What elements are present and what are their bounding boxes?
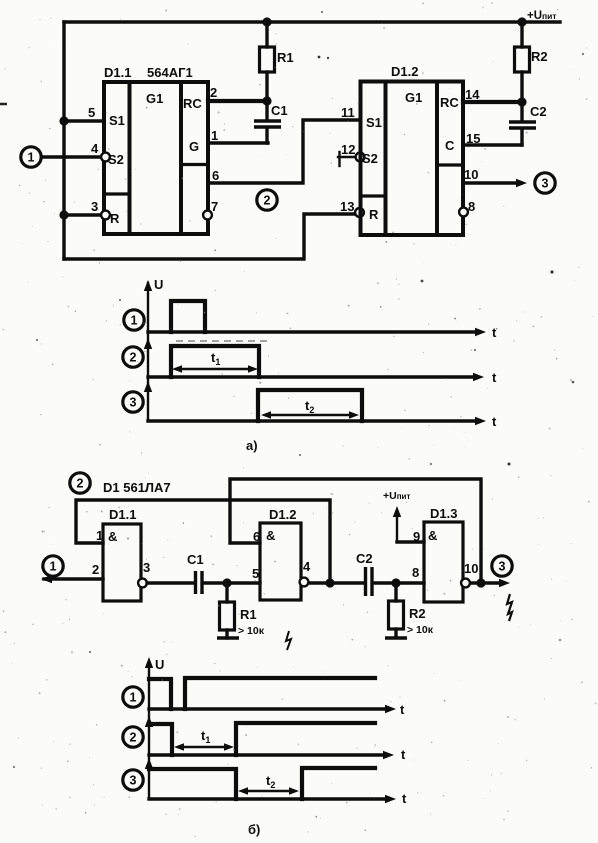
svg-text:а): а) — [246, 438, 258, 453]
svg-text:RC: RC — [440, 95, 459, 110]
svg-text:8: 8 — [412, 565, 419, 580]
svg-text:C1: C1 — [271, 103, 288, 118]
svg-text:C: C — [445, 138, 455, 153]
svg-text:1: 1 — [28, 150, 35, 164]
svg-text:S1: S1 — [109, 113, 125, 128]
svg-text:R: R — [110, 211, 120, 226]
svg-text:S2: S2 — [362, 151, 378, 166]
svg-text:5: 5 — [88, 105, 95, 120]
svg-text:&: & — [428, 528, 437, 543]
svg-text:U: U — [154, 277, 163, 292]
svg-text:3: 3 — [542, 176, 549, 190]
svg-text:C2: C2 — [356, 551, 373, 566]
svg-text:R1: R1 — [240, 607, 257, 622]
svg-text:1: 1 — [96, 528, 103, 543]
svg-text:C1: C1 — [187, 552, 204, 567]
svg-text:U: U — [155, 657, 164, 672]
svg-text:б): б) — [248, 822, 260, 837]
svg-text:5: 5 — [252, 566, 259, 581]
svg-text:R1: R1 — [277, 50, 294, 65]
svg-text:564АГ1: 564АГ1 — [147, 65, 193, 80]
svg-text:15: 15 — [466, 131, 480, 146]
svg-text:1: 1 — [50, 559, 57, 573]
svg-text:6: 6 — [212, 168, 219, 183]
svg-text:R: R — [369, 207, 379, 222]
svg-text:3: 3 — [130, 773, 137, 787]
svg-text:3: 3 — [91, 199, 98, 214]
svg-text:10: 10 — [464, 167, 478, 182]
svg-text:D1.1: D1.1 — [104, 65, 131, 80]
svg-text:t: t — [401, 747, 406, 762]
svg-text:> 10к: > 10к — [407, 624, 434, 636]
svg-text:t: t — [492, 325, 497, 340]
svg-text:2: 2 — [77, 476, 84, 490]
svg-text:+Uпит: +Uпит — [527, 10, 557, 22]
svg-text:G: G — [189, 139, 199, 154]
svg-text:1: 1 — [211, 128, 218, 143]
svg-text:RC: RC — [183, 96, 202, 111]
svg-text:14: 14 — [465, 87, 480, 102]
svg-text:+Uпит: +Uпит — [383, 490, 410, 502]
svg-text:11: 11 — [341, 105, 355, 120]
svg-text:4: 4 — [91, 141, 99, 156]
svg-text:10: 10 — [464, 561, 478, 576]
svg-text:D1.2: D1.2 — [269, 507, 296, 522]
svg-text:R2: R2 — [531, 49, 548, 64]
svg-text:D1.2: D1.2 — [391, 64, 418, 79]
svg-text:R2: R2 — [409, 606, 426, 621]
svg-text:12: 12 — [341, 142, 355, 157]
svg-text:D1.3: D1.3 — [430, 506, 457, 521]
svg-text:t: t — [492, 370, 497, 385]
svg-text:2: 2 — [92, 562, 99, 577]
svg-text:9: 9 — [413, 529, 420, 544]
svg-text:G1: G1 — [146, 91, 163, 106]
svg-text:&: & — [108, 529, 117, 544]
svg-text:&: & — [266, 528, 275, 543]
svg-text:7: 7 — [211, 199, 218, 214]
svg-text:S1: S1 — [366, 115, 382, 130]
svg-text:3: 3 — [143, 560, 150, 575]
svg-text:t: t — [492, 414, 497, 429]
svg-text:13: 13 — [340, 199, 354, 214]
svg-text:t: t — [400, 702, 405, 717]
svg-text:3: 3 — [499, 559, 506, 573]
svg-text:D1.1: D1.1 — [109, 507, 136, 522]
svg-text:3: 3 — [130, 395, 137, 409]
svg-text:G1: G1 — [405, 90, 422, 105]
svg-text:4: 4 — [303, 559, 311, 574]
svg-text:S2: S2 — [108, 152, 124, 167]
svg-text:2: 2 — [130, 350, 137, 364]
svg-text:t: t — [402, 791, 407, 806]
svg-text:1: 1 — [130, 690, 137, 704]
svg-text:8: 8 — [468, 199, 475, 214]
svg-text:2: 2 — [210, 85, 217, 100]
svg-text:> 10к: > 10к — [238, 625, 265, 637]
svg-text:2: 2 — [264, 193, 271, 207]
svg-text:D1 561ЛА7: D1 561ЛА7 — [103, 480, 171, 495]
svg-text:1: 1 — [131, 313, 138, 327]
svg-text:6: 6 — [253, 529, 260, 544]
svg-text:C2: C2 — [530, 104, 547, 119]
svg-text:2: 2 — [130, 730, 137, 744]
